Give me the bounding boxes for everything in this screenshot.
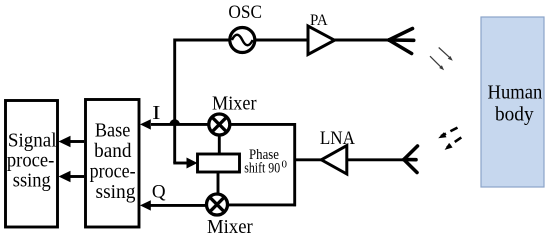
mixer M1 — [209, 114, 230, 135]
RX antenna — [404, 146, 418, 173]
svg-text:band: band — [94, 141, 132, 162]
wire OSC to PA — [256, 39, 308, 42]
svg-text:Mixer: Mixer — [212, 93, 257, 114]
wire right vertical — [293, 123, 296, 206]
dashed arrow reflected wave 2 — [447, 137, 461, 147]
wire LNA to RX antenna — [347, 158, 404, 161]
wire top line from corner to OSC — [175, 40, 230, 163]
wire right vertical to LNA — [295, 158, 322, 161]
junction hop at I line — [169, 119, 179, 124]
svg-text:proce-: proce- — [90, 162, 136, 183]
wire PA to TX antenna — [335, 39, 390, 42]
svg-text:I: I — [152, 101, 160, 123]
TX antenna — [389, 29, 414, 54]
svg-text:proce-: proce- — [7, 151, 55, 172]
thin arrow TX wave 1 — [439, 48, 450, 58]
baseband processing box U2 — [86, 100, 140, 228]
svg-text:PA: PA — [310, 12, 328, 29]
human body box — [481, 17, 544, 187]
dashed arrow reflected wave 1 — [441, 128, 458, 137]
wire phase shifter to mixer M2 — [217, 172, 220, 194]
wire mixer M1 to right vertical — [230, 123, 297, 126]
svg-text:Human: Human — [488, 82, 543, 104]
svg-text:0: 0 — [282, 159, 288, 171]
svg-text:shift 90: shift 90 — [244, 160, 280, 176]
oscillator OSC — [230, 28, 255, 53]
amplifier PA — [308, 26, 335, 55]
wire arrow baseband to signal lower — [69, 175, 84, 178]
svg-text:Signal: Signal — [8, 130, 57, 151]
svg-text:ssing: ssing — [96, 182, 136, 203]
wire arrow into phase shifter — [173, 162, 188, 165]
svg-text:Base: Base — [95, 121, 131, 142]
signal processing box U1 — [6, 101, 58, 228]
svg-text:ssing: ssing — [13, 171, 51, 192]
svg-text:body: body — [495, 104, 534, 126]
wire mixer M2 to right vertical — [227, 203, 296, 206]
svg-text:Q: Q — [152, 181, 166, 202]
wire mixer M1 to phase shifter — [218, 136, 221, 155]
svg-text:Mixer: Mixer — [207, 217, 253, 238]
thin arrow TX wave 2 — [430, 56, 441, 67]
phase shifter box — [198, 154, 240, 172]
mixer M2 — [207, 194, 228, 215]
svg-text:OSC: OSC — [228, 2, 262, 23]
wire Q line with arrow into baseband — [150, 204, 207, 207]
wire I line with arrow into baseband — [151, 123, 209, 126]
wire arrow baseband to signal upper — [69, 140, 84, 143]
svg-text:LNA: LNA — [320, 128, 355, 149]
LNA amplifier — [321, 146, 347, 174]
